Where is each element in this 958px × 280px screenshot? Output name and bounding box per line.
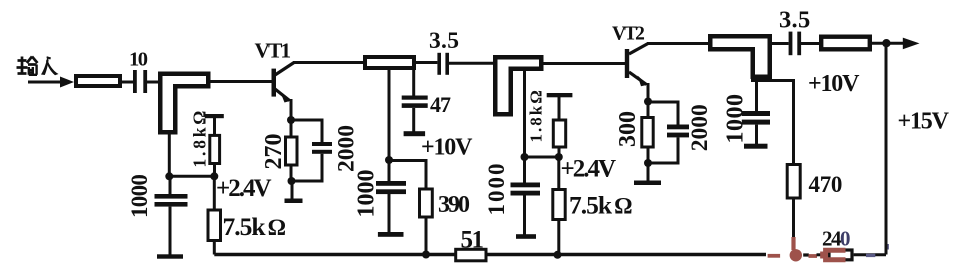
wire node E to node F [525,156,559,159]
capacitor C2 3.5 [437,53,441,75]
svg-text:VT1: VT1 [255,39,291,63]
capacitor 1000 stage2 [523,157,526,183]
resistor 300 [647,102,650,118]
svg-text:3.5: 3.5 [429,28,459,54]
resistor 7.5k stage1 [213,176,216,210]
svg-text:1000: 1000 [354,170,380,218]
slate watermark tick on right line [886,244,889,250]
VT2 emitter ground [647,163,650,181]
capacitor 2000 stage1 [291,120,322,142]
svg-text:47: 47 [430,92,451,117]
wire TL1 to C1 [120,81,133,84]
svg-text:7.5kΩ: 7.5kΩ [569,191,632,220]
capacitor 47 [402,96,428,100]
tap TL3 down left [388,69,391,160]
red watermark rail dash left [768,254,781,258]
wire TL5 to C3 [772,42,789,45]
resistor 270 [290,120,293,137]
microstrip stub TL4 (L-shape stage2) [493,55,544,117]
wire TL6 to output node [870,42,886,45]
resistor 390 [389,161,426,190]
red watermark stub of 470 wire [791,237,795,250]
svg-text:VT2: VT2 [612,24,644,45]
svg-text:470: 470 [809,172,843,197]
svg-text:+2.4V: +2.4V [561,156,616,183]
svg-text:1.8kΩ: 1.8kΩ [527,88,546,142]
resistor 51 (in rail) [456,249,486,260]
microstrip stub TL2 (L-shape) [158,72,211,135]
VT1 emitter ground [291,181,294,199]
tap TL3 down right to C47 [412,69,415,96]
node C junction dot [385,156,393,164]
bottom rail mid segment [486,253,766,256]
VT2 collector rail to TL5 [647,42,709,45]
rail black segment before 240 [817,253,825,256]
node F junction dot [555,153,563,161]
svg-text:1.8kΩ: 1.8kΩ [190,108,210,168]
red watermark rail dash right [809,254,818,258]
rail segment 240 to right line [854,253,886,256]
microstrip TL6 [821,37,870,50]
resistor 470 [787,165,800,199]
tap TL4 down to node E [523,71,526,157]
wire C1 to TL2 [147,81,159,84]
svg-text:1000: 1000 [484,162,509,216]
microstrip stub TL5 (L-shape mirrored) [708,34,772,79]
resistor 240 (in rail) [829,250,852,260]
svg-text:1000: 1000 [723,94,749,144]
wire node A to node B [169,175,214,178]
bottom rail left segment [214,253,455,256]
node A junction dot [165,172,173,180]
VT1 emitter bottom node dot [288,177,296,185]
node E junction dot [521,153,529,161]
svg-text:10: 10 [129,49,148,71]
microstrip TL1 [76,76,120,86]
capacitor 1000 right [755,78,758,111]
input arrow [28,81,62,84]
resistor 1.8k stage2 with top terminal [547,93,573,97]
wire C3 to TL6 [801,42,821,45]
wire TL2 stub down to node A [168,134,171,176]
svg-text:51: 51 [461,227,484,254]
slate watermark dash on rail [866,254,875,257]
node G rail junction dot [554,251,562,259]
rail black micro dash [803,253,809,256]
supply wire TL5 to 470 [751,81,794,165]
VT2 emitter node dot [644,98,652,106]
VT1 collector rail to TL3 [293,61,365,64]
red watermark junction dot [790,249,802,261]
capacitor 1000 mid [388,160,391,181]
output node dot [882,39,890,47]
capacitor 1000 (stage1 bypass) [169,176,172,194]
output arrow [886,42,904,45]
wire TL3 to C2 [414,61,437,64]
resistor 1.8k stage1 with top terminal [205,114,224,118]
right vertical line [885,43,888,254]
svg-text:300: 300 [615,111,641,147]
svg-text:2000: 2000 [334,125,360,172]
svg-text:+2.4V: +2.4V [216,175,271,202]
wire C2 to TL4 [449,62,494,65]
svg-text:3.5: 3.5 [779,7,811,34]
node D rail junction dot [422,251,430,259]
svg-text:240: 240 [822,227,850,251]
svg-text:7.5kΩ: 7.5kΩ [223,212,286,241]
svg-text:2000: 2000 [687,104,713,151]
VT1 emitter node dot [287,116,295,124]
svg-text:+10V: +10V [808,71,860,97]
wire TL2 to VT1 base [210,80,272,83]
capacitor C3 3.5 [789,32,793,56]
input label 输入 [17,56,59,75]
capacitor C1 10 [133,70,137,93]
svg-text:270: 270 [261,134,287,170]
capacitor 2000 stage2 [648,102,678,125]
svg-text:+10V: +10V [421,135,473,161]
node B junction dot [210,172,218,180]
svg-text:+15V: +15V [898,109,950,135]
microstrip TL3 [365,57,414,68]
VT2 emitter bottom node dot [644,159,652,167]
wire TL4 to VT2 base [543,62,625,65]
svg-text:390: 390 [438,192,470,218]
svg-text:1000: 1000 [127,175,152,218]
resistor 7.5k stage2 [557,157,560,190]
